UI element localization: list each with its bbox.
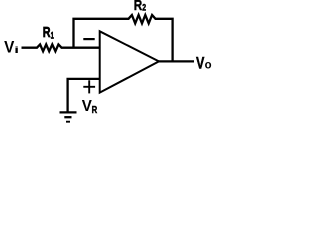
svg-text:R: R <box>92 104 98 115</box>
svg-text:2: 2 <box>142 3 146 13</box>
svg-text:R: R <box>134 0 143 13</box>
svg-text:V: V <box>4 38 14 57</box>
svg-text:V: V <box>196 55 205 73</box>
svg-text:R: R <box>43 23 51 40</box>
svg-text:i: i <box>14 44 19 55</box>
svg-text:o: o <box>205 58 212 71</box>
svg-text:1: 1 <box>51 30 55 41</box>
